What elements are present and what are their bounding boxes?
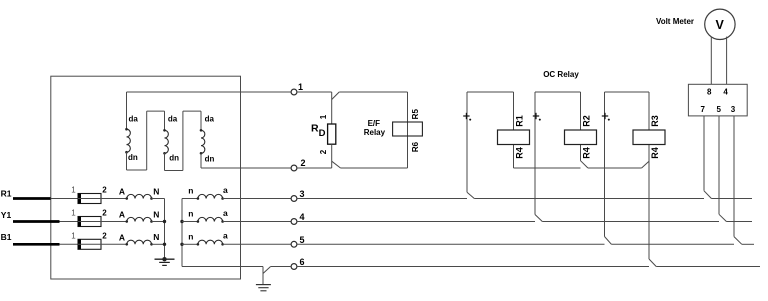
wire bus 4 segment c: [726, 221, 752, 223]
wire dn3 to node 2: [200, 153, 202, 168]
wire node 1 to RD: [297, 91, 332, 93]
svg-text:Relay: Relay: [364, 128, 386, 137]
junction secondary B: [180, 243, 183, 246]
svg-text:Volt Meter: Volt Meter: [656, 17, 694, 26]
polarity mark unit 1: [463, 115, 469, 117]
inductor secondary winding B: [198, 240, 223, 244]
wire bus to secondary winding Y: [182, 221, 198, 223]
wire chain unit2 to unit3: [588, 167, 642, 169]
wire bus 6 segment a: [297, 266, 649, 268]
wire meter to pin 8: [710, 37, 712, 85]
polarity mark unit 3: [602, 115, 608, 117]
wire chain to unit3 R4: [642, 161, 649, 168]
wire bus 5 segment a: [297, 243, 605, 245]
svg-text:n: n: [188, 231, 193, 241]
svg-text:R1: R1: [515, 115, 525, 127]
wire unit2 entry to bus 4: [535, 215, 542, 222]
svg-text:dn: dn: [169, 154, 179, 163]
wire da1 to node 1: [127, 91, 292, 93]
inductor primary winding R: [127, 194, 152, 198]
wire bus to secondary winding R: [182, 198, 198, 200]
svg-text:dn: dn: [205, 155, 215, 164]
node 4: [291, 219, 297, 225]
svg-text:a: a: [223, 231, 228, 241]
meter terminal box: [688, 84, 747, 116]
resistor R2 coil: [565, 130, 597, 145]
svg-text:N: N: [153, 232, 159, 242]
ground primary star: [155, 257, 175, 265]
junction star Y: [163, 220, 166, 223]
svg-text:2: 2: [102, 209, 107, 218]
svg-text:R4: R4: [582, 147, 592, 159]
svg-text:da: da: [129, 115, 139, 124]
svg-text:7: 7: [700, 105, 705, 114]
wire to node 6: [271, 266, 292, 268]
svg-text:1: 1: [298, 82, 303, 92]
wire primary star bus: [164, 199, 166, 260]
node 5: [291, 241, 297, 247]
svg-text:n: n: [188, 209, 193, 219]
wire ground stem node6: [262, 267, 264, 285]
wire bus 3 segment c: [711, 198, 752, 200]
volt meter M1: [705, 9, 735, 39]
svg-text:Y1: Y1: [1, 210, 12, 220]
wire bus 3 segment b: [474, 198, 704, 200]
wire bus 4 segment a: [297, 221, 535, 223]
wire dn2 to da3 link: [165, 111, 202, 170]
polarity mark unit 2: [533, 115, 539, 117]
wire node 2 to RD: [297, 167, 332, 169]
svg-text:R1: R1: [1, 189, 12, 199]
wire fuse F1 to winding: [78, 198, 127, 200]
wire da1 up to node 1 line: [126, 92, 128, 129]
resistor R5 R6 coil: [393, 122, 423, 136]
wire pin 7 to bus 3: [704, 191, 711, 199]
svg-text:da: da: [168, 115, 178, 124]
svg-text:E/F: E/F: [368, 119, 381, 128]
resistor RD: [328, 92, 336, 168]
wire secondary B to node 5: [223, 243, 292, 245]
svg-text:V: V: [716, 18, 725, 32]
wire primary winding B N to star bus: [152, 243, 165, 245]
wire secondary R to node 3: [223, 198, 292, 200]
svg-text:R4: R4: [515, 147, 525, 159]
wire bus 6 segment b: [656, 266, 760, 268]
svg-text:N: N: [153, 209, 159, 219]
wire B1 bus bold: [13, 243, 60, 246]
svg-text:4: 4: [723, 87, 728, 96]
wire chain unit1 to unit2: [514, 167, 581, 169]
svg-text:B1: B1: [1, 232, 12, 242]
svg-text:A: A: [119, 187, 125, 197]
wire fuse F2 to winding: [78, 221, 127, 223]
wire unit2 R4 to chain: [581, 161, 588, 168]
svg-text:R4: R4: [650, 147, 660, 159]
node 6: [291, 264, 297, 270]
svg-text:5: 5: [299, 235, 304, 245]
resistor R3 coil: [633, 130, 665, 145]
svg-text:N: N: [153, 186, 159, 196]
inductor tertiary winding 2: [165, 130, 169, 153]
node 1: [291, 89, 297, 95]
node 3: [291, 196, 297, 202]
wire Y1 bus bold: [13, 220, 60, 223]
svg-text:A: A: [119, 232, 125, 242]
svg-text:R5: R5: [411, 109, 420, 120]
wire bus 3 segment a: [297, 198, 467, 200]
OC relay unit 3 frame: [605, 92, 650, 259]
wire unit1 entry to bus 3: [467, 192, 474, 198]
junction secondary Y: [180, 220, 183, 223]
svg-text:2: 2: [102, 186, 107, 195]
wire meter to pin 4: [726, 37, 728, 85]
ground node 6: [256, 285, 271, 291]
wire pin 7 down: [703, 116, 705, 191]
node 2: [291, 165, 297, 171]
svg-text:1: 1: [71, 231, 76, 240]
OC relay unit 2 frame: [535, 92, 581, 215]
OC relay unit 1 frame: [467, 92, 514, 192]
fuse F1: [78, 194, 101, 204]
inductor primary winding B: [127, 240, 152, 244]
svg-text:2: 2: [300, 158, 305, 168]
svg-text:a: a: [223, 185, 228, 195]
inductor tertiary winding 3: [201, 130, 205, 153]
svg-text:4: 4: [299, 212, 304, 222]
svg-text:8: 8: [707, 87, 712, 96]
inductor tertiary winding 1: [127, 129, 131, 152]
svg-text:1: 1: [71, 209, 76, 218]
fuse F3: [78, 239, 101, 249]
inductor primary winding Y: [127, 217, 152, 221]
svg-text:1: 1: [71, 186, 76, 195]
wire bus 5 segment c: [742, 243, 754, 245]
wire pin 5 down: [718, 116, 720, 214]
svg-text:da: da: [205, 115, 215, 124]
inductor secondary winding R: [198, 194, 223, 198]
wire unit3 to bus 6: [649, 259, 656, 267]
svg-text:2: 2: [319, 149, 328, 154]
wire primary winding Y N to star bus: [152, 221, 165, 223]
wire secondary bottom: [182, 266, 263, 268]
svg-text:3: 3: [731, 105, 736, 114]
wire B1 to fuse: [60, 243, 79, 245]
svg-text:n: n: [188, 186, 193, 196]
wire fuse F3 to winding: [78, 243, 127, 245]
svg-text:dn: dn: [128, 153, 138, 162]
wire bus 5 segment b: [611, 243, 734, 245]
wire pin 3 down: [733, 116, 735, 237]
wire bus 4 segment b: [542, 221, 719, 223]
svg-text:OC Relay: OC Relay: [543, 70, 579, 79]
svg-text:A: A: [119, 210, 125, 220]
svg-text:2: 2: [102, 231, 107, 240]
svg-text:R3: R3: [650, 115, 660, 127]
svg-text:3: 3: [299, 189, 304, 199]
wire pin 3 to bus 5: [734, 237, 742, 245]
wire bus to secondary winding B: [182, 243, 198, 245]
wire secondary Y to node 4: [223, 221, 292, 223]
wire ground jog to node 6: [263, 267, 271, 274]
E/F relay box: [332, 92, 408, 168]
resistor R1 coil: [498, 130, 530, 145]
svg-text:R6: R6: [411, 141, 420, 152]
wire R1 to fuse: [51, 198, 79, 200]
svg-text:a: a: [223, 208, 228, 218]
svg-text:1: 1: [319, 114, 328, 119]
wire pin 5 to bus 4: [719, 214, 726, 221]
inductor secondary winding Y: [198, 217, 223, 221]
svg-text:R2: R2: [582, 115, 592, 127]
junction star B: [163, 243, 166, 246]
wire unit3 entry to bus 5: [605, 237, 612, 245]
svg-text:5: 5: [716, 105, 721, 114]
transformer box: [51, 76, 241, 279]
svg-text:6: 6: [299, 257, 304, 267]
wire dn1 to da2 link: [127, 111, 165, 170]
wire primary winding R N to star bus: [152, 198, 165, 200]
wire secondary bus: [181, 199, 183, 267]
wire Y1 to fuse: [60, 221, 79, 223]
fuse F2: [78, 217, 101, 227]
wire R1 bus bold: [13, 197, 51, 200]
